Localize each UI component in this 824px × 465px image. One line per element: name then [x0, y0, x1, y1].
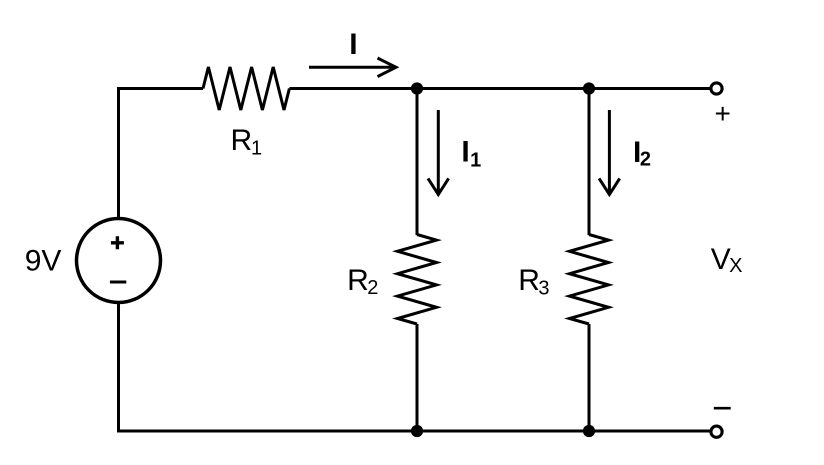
voltage source minus mark	[110, 281, 126, 284]
node junction R3 top	[583, 82, 595, 94]
svg-text:2: 2	[367, 277, 378, 299]
wire top-left horizontal (source top to R1)	[117, 87, 203, 90]
current arrow I2	[599, 110, 620, 195]
svg-text:+: +	[715, 98, 731, 129]
svg-text:1: 1	[251, 138, 262, 160]
wire R3 branch lower	[588, 324, 591, 431]
svg-text:I: I	[461, 136, 469, 169]
node junction R2 bottom	[411, 425, 423, 437]
svg-text:1: 1	[470, 149, 481, 171]
label - output polarity	[714, 407, 731, 410]
svg-text:9V: 9V	[25, 245, 62, 278]
resistor R1	[203, 67, 289, 110]
svg-text:I: I	[349, 28, 357, 61]
wire left vertical (top wire to source +)	[117, 87, 120, 219]
wire R2 branch upper	[416, 89, 419, 236]
svg-text:2: 2	[640, 149, 651, 171]
svg-text:R: R	[518, 264, 540, 297]
svg-text:R: R	[231, 124, 253, 157]
wire R3 branch upper	[588, 89, 591, 236]
wire top horizontal (R1 to terminal)	[289, 87, 709, 90]
wire bottom horizontal	[117, 430, 710, 433]
svg-text:R: R	[347, 264, 369, 297]
resistor R3	[570, 235, 609, 325]
wire left vertical (source - to bottom wire)	[117, 302, 120, 433]
voltage source V1 circle	[77, 219, 161, 303]
svg-text:V: V	[711, 243, 731, 276]
wire R2 branch lower	[416, 324, 419, 431]
svg-text:3: 3	[538, 278, 549, 300]
resistor R2	[398, 235, 437, 325]
terminal positive (open circle top right)	[711, 83, 722, 94]
current arrow I	[309, 58, 396, 77]
terminal negative (open circle bottom right)	[711, 426, 722, 437]
node junction R2 top	[411, 82, 423, 94]
current arrow I1	[428, 110, 449, 195]
voltage source plus mark	[111, 236, 124, 249]
svg-text:X: X	[729, 255, 742, 277]
node junction R3 bottom	[583, 425, 595, 437]
